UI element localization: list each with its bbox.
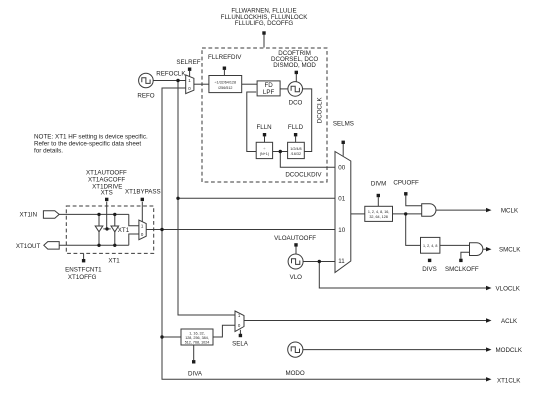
svg-text:XT1CLK: XT1CLK bbox=[497, 378, 521, 385]
junction XT1IN rail stage1 bbox=[97, 213, 100, 216]
svg-text:FLLULIFG, DCOFFG: FLLULIFG, DCOFFG bbox=[235, 20, 294, 27]
wire: VLO control bbox=[295, 246, 297, 254]
value DIVM divide ratios bbox=[368, 210, 390, 219]
svg-text:FLLD: FLLD bbox=[288, 124, 304, 131]
svg-text:LPF: LPF bbox=[263, 89, 275, 96]
svg-text:DISMOD, MOD: DISMOD, MOD bbox=[273, 62, 316, 69]
wire: VLOCLK branch down and output line bbox=[319, 262, 487, 289]
control terminal FLLN bbox=[263, 133, 266, 136]
label XT1 control signal stack bbox=[86, 169, 127, 196]
wire: link between oscillator stages bbox=[103, 228, 110, 230]
svg-text:DIVS: DIVS bbox=[422, 266, 436, 273]
junction XTS drive node bbox=[105, 227, 108, 230]
wire: FLLREFDIV control bbox=[223, 70, 225, 76]
svg-text:REFO: REFO bbox=[137, 92, 154, 99]
junction XT1IN rail stage2 bbox=[113, 213, 116, 216]
wire: FLLD output to FLLN input bbox=[273, 151, 288, 153]
pin XT1OUT bbox=[44, 242, 59, 250]
svg-text:DCOCLK: DCOCLK bbox=[316, 97, 323, 124]
mux SELMS bbox=[335, 152, 351, 273]
svg-text:1, 2, 4, 8, 16,: 1, 2, 4, 8, 16, bbox=[368, 210, 390, 214]
svg-text:FLLN: FLLN bbox=[257, 124, 272, 131]
wire: SMCLK output line bbox=[483, 248, 487, 250]
svg-text:DCOCLKDIV: DCOCLKDIV bbox=[285, 172, 322, 179]
svg-text:÷1/32/64/128: ÷1/32/64/128 bbox=[215, 81, 237, 85]
svg-text:DIVA: DIVA bbox=[188, 371, 203, 378]
wire: XT1OUT rail to bypass mux input 0 bbox=[129, 234, 139, 245]
control terminal SMCLKOFF bbox=[459, 259, 462, 262]
svg-text:10: 10 bbox=[338, 227, 345, 234]
wire: REFOCLK branch to SELMS input 01 bbox=[178, 197, 335, 199]
wire: XT1CLK up to SELREF mux input 0 bbox=[162, 88, 186, 230]
svg-text:for details.: for details. bbox=[34, 148, 63, 155]
svg-text:512, 768, 1024: 512, 768, 1024 bbox=[185, 340, 210, 344]
arrowhead XT1CLK bbox=[486, 377, 492, 381]
junction XT1CLK node bbox=[160, 228, 163, 231]
svg-text:DIVM: DIVM bbox=[371, 180, 386, 187]
svg-text:ACLK: ACLK bbox=[501, 318, 518, 325]
svg-text:1, 2, 4, 8: 1, 2, 4, 8 bbox=[423, 244, 437, 248]
wire: MCLK output line bbox=[436, 209, 487, 211]
control terminal XT1BYPASS bbox=[141, 198, 144, 201]
wire: FLLN control bbox=[264, 136, 266, 142]
wire: XT1CLK tap to DIVA divider input bbox=[162, 336, 181, 338]
control terminal FLLD bbox=[294, 133, 297, 136]
label ENSTFCNT1 / XT1OFFG bbox=[65, 267, 102, 282]
wire: FLL status signals into FLL box bbox=[263, 35, 265, 48]
divider FLLN box bbox=[256, 142, 272, 158]
control terminal CPUOFF bbox=[404, 192, 407, 195]
control terminal DIVM bbox=[377, 194, 380, 197]
svg-text:XT1IN: XT1IN bbox=[20, 212, 38, 219]
wire: REFOCLK vertical distribution down to SELA input 1 bbox=[178, 81, 235, 316]
inverter amplifier stage 2 of XT1 oscillator bbox=[111, 226, 119, 232]
inverter amplifier stage 1 of XT1 oscillator bbox=[95, 226, 103, 232]
divider DIVM box bbox=[365, 206, 393, 221]
svg-text:/16/32: /16/32 bbox=[291, 152, 301, 156]
wire: DIVM control bbox=[377, 197, 379, 206]
wire: DCO control bbox=[295, 74, 297, 82]
svg-text:128, 256, 384,: 128, 256, 384, bbox=[185, 336, 209, 340]
XT1 module dashed box bbox=[66, 206, 153, 253]
junction XT1CLK to DIVA bbox=[160, 335, 163, 338]
wire: DCO output down to FLLD input (DCOCLK) bbox=[303, 89, 312, 152]
control terminal DIVS bbox=[428, 259, 431, 262]
wire: FLLN feedback to FD LPF bbox=[247, 92, 256, 152]
arrowhead SMCLK bbox=[486, 247, 492, 251]
wire: DIVA output to SELA input 0 bbox=[213, 325, 235, 337]
value FLLN divide ratio bbox=[260, 147, 269, 156]
pin labels SELMS mux inputs bbox=[338, 164, 345, 265]
wire: XTS / XT1DRIVE control drop bbox=[106, 202, 108, 229]
svg-text:FLLREFDIV: FLLREFDIV bbox=[208, 54, 242, 61]
wire: FLLREFDIV output to FD LPF bbox=[242, 83, 257, 85]
svg-text:MODCLK: MODCLK bbox=[496, 347, 523, 354]
mux SELREF bbox=[186, 75, 194, 94]
divider DIVA box bbox=[181, 329, 213, 345]
wire: SELMS control bbox=[342, 144, 344, 156]
wire: FD LPF output to DCO bbox=[280, 88, 288, 90]
wire: DIVM output to MCLK AND gate bbox=[393, 213, 422, 215]
svg-text:SMCLKOFF: SMCLKOFF bbox=[445, 266, 479, 273]
node: FLL status signal names bbox=[221, 7, 309, 27]
oscillator DCO bbox=[288, 82, 303, 97]
svg-text:32, 64, 128: 32, 64, 128 bbox=[369, 215, 387, 219]
svg-text:XTS: XTS bbox=[101, 189, 113, 196]
wire: SELA control bbox=[239, 330, 241, 334]
control terminal SELREF bbox=[188, 68, 191, 71]
and-gate SMCLK (SMCLKOFF gating) bbox=[470, 243, 483, 256]
wire: SELREF mux output to FLLREFDIV bbox=[194, 83, 209, 85]
junction DCOCLKDIV bbox=[279, 150, 282, 153]
svg-text:VLOCLK: VLOCLK bbox=[496, 285, 521, 292]
pin labels SELA mux inputs 1/0 bbox=[238, 313, 241, 328]
wire: oscillator stage 2 verticals bbox=[114, 214, 116, 245]
pin labels SELREF mux inputs 1/0 bbox=[188, 78, 191, 91]
value FLLD divide ratios bbox=[290, 147, 301, 156]
wire: branch down to DIVS bbox=[406, 214, 421, 246]
and-gate MCLK (CPUOFF gating) bbox=[422, 204, 436, 217]
control terminal: FLL status signals bbox=[262, 31, 265, 34]
wire: ACLK output line from SELA bbox=[244, 320, 487, 322]
junction MCLK/SMCLK branch bbox=[404, 212, 407, 215]
wire: SMCLKOFF control into SMCLK AND gate bbox=[461, 252, 470, 258]
wire: XT1 bypass mux output bbox=[146, 229, 162, 231]
wire: ENSTFCNT1 control bbox=[83, 253, 85, 259]
divider FLLREFDIV box bbox=[209, 76, 242, 93]
wire: oscillator stage 1 verticals bbox=[98, 214, 100, 245]
wire: SELREF control bbox=[189, 71, 191, 77]
svg-text:00: 00 bbox=[338, 164, 345, 171]
wire: MODO output line to MODCLK bbox=[303, 349, 487, 351]
svg-text:XT1OUT: XT1OUT bbox=[16, 243, 41, 250]
junction on REFOCLK at REFO output bbox=[176, 79, 179, 82]
wire: XT1CLK vertical distribution and XT1CLK output line bbox=[162, 230, 487, 380]
svg-text:XT1: XT1 bbox=[118, 227, 130, 234]
svg-text:01: 01 bbox=[338, 196, 345, 203]
svg-text:11: 11 bbox=[338, 258, 345, 265]
wire: XT1BYPASS control drop bbox=[141, 202, 143, 222]
control terminal XTS stack bbox=[105, 198, 108, 201]
divider DIVS box bbox=[421, 237, 440, 253]
wire: XT1IN rail bbox=[59, 213, 129, 215]
pin XT1IN bbox=[43, 211, 59, 219]
svg-text:SELREF: SELREF bbox=[176, 59, 200, 66]
arrowhead MCLK bbox=[486, 208, 492, 212]
control terminal SELMS bbox=[342, 141, 345, 144]
control terminal FLLREFDIV bbox=[223, 67, 226, 70]
arrowhead MODCLK bbox=[486, 347, 492, 351]
wire: DIVA control bbox=[193, 345, 195, 360]
svg-text:VLO: VLO bbox=[290, 274, 303, 281]
svg-text:÷: ÷ bbox=[263, 147, 265, 151]
oscillator VLO bbox=[288, 254, 303, 269]
wire: CPUOFF control into MCLK AND gate bbox=[406, 196, 422, 206]
svg-text:SELA: SELA bbox=[232, 341, 249, 348]
wire: VLO output to SELMS input 11 bbox=[303, 261, 335, 263]
value DIVA divide ratios bbox=[185, 332, 210, 345]
svg-text:SELMS: SELMS bbox=[333, 120, 354, 127]
svg-text:MODO: MODO bbox=[285, 370, 304, 377]
label FD LPF bbox=[263, 82, 275, 96]
control terminal DIVA bbox=[192, 360, 195, 363]
pin labels XT1 bypass mux inputs 1/0 bbox=[141, 224, 144, 237]
svg-text:1/2/4/8: 1/2/4/8 bbox=[290, 147, 301, 151]
control terminal SELA bbox=[239, 334, 242, 337]
wire: XT1IN rail to bypass mux input 1 bbox=[129, 214, 139, 225]
wire: REFO output to SELREF mux input 1 (REFOCLK) bbox=[153, 80, 186, 82]
junction XT1OUT rail stage1 bbox=[97, 244, 100, 247]
svg-text:1, 16, 32,: 1, 16, 32, bbox=[189, 332, 204, 336]
svg-text:CPUOFF: CPUOFF bbox=[393, 180, 419, 187]
arrowhead ACLK bbox=[486, 318, 492, 322]
arrowhead VLOCLK bbox=[486, 286, 492, 290]
mux SELA bbox=[235, 311, 244, 332]
svg-text:XT1AGCOFF: XT1AGCOFF bbox=[88, 176, 125, 183]
junction REFOCLK to SELMS 01 bbox=[176, 197, 179, 200]
svg-text:NOTE: XT1 HF setting is device: NOTE: XT1 HF setting is device specific. bbox=[34, 133, 148, 140]
svg-text:XT1BYPASS: XT1BYPASS bbox=[125, 189, 161, 196]
node: DCO control signal names bbox=[271, 50, 318, 69]
svg-text:MCLK: MCLK bbox=[501, 208, 519, 215]
value FLLREFDIV divide ratios bbox=[215, 81, 237, 90]
wire: FLLD control bbox=[295, 136, 297, 142]
svg-text:DCO: DCO bbox=[289, 99, 303, 106]
control terminal VLOAUTOOFF bbox=[294, 243, 297, 246]
svg-text:/256/512: /256/512 bbox=[218, 86, 232, 90]
svg-text:REFOCLK: REFOCLK bbox=[156, 71, 186, 78]
mux XT1 bypass bbox=[139, 220, 146, 240]
control terminal ENSTFCNT1 bbox=[82, 259, 85, 262]
oscillator MODO bbox=[288, 342, 303, 357]
svg-text:ENSTFCNT1: ENSTFCNT1 bbox=[65, 267, 102, 274]
FLL module dashed box bbox=[202, 48, 327, 182]
svg-text:XT1: XT1 bbox=[108, 257, 120, 264]
svg-text:(N+1): (N+1) bbox=[260, 152, 269, 156]
control terminal DCO trim bbox=[295, 71, 298, 74]
svg-text:SMCLK: SMCLK bbox=[499, 246, 521, 253]
svg-text:VLOAUTOOFF: VLOAUTOOFF bbox=[274, 235, 316, 242]
junction XT1OUT rail stage2 bbox=[113, 244, 116, 247]
svg-text:Refer to the device-specific d: Refer to the device-specific data sheet bbox=[34, 141, 141, 148]
oscillator REFO bbox=[139, 73, 154, 88]
wire: DIVS output to SMCLK AND gate bbox=[440, 244, 470, 246]
wire: XT1CLK branch to SELMS input 10 bbox=[162, 229, 335, 231]
junction VLOCLK branch bbox=[318, 260, 321, 263]
divider FLLD box bbox=[288, 142, 305, 158]
note text bbox=[34, 133, 148, 154]
wire: DCOCLKDIV from FLL divider junction to SELMS input 00 bbox=[280, 152, 335, 168]
wire: XT1OUT rail bbox=[59, 244, 129, 246]
block FD LPF bbox=[257, 81, 280, 96]
svg-text:XT1OFFG: XT1OFFG bbox=[68, 274, 97, 281]
wire: SELMS output to DIVM bbox=[351, 213, 365, 215]
